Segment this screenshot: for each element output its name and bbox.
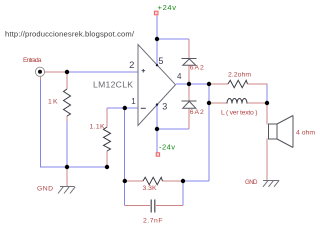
ground left (58, 187, 75, 194)
wire 1.1K bottom lead (106, 151, 108, 167)
node ground rail junction (65, 165, 69, 169)
-24v terminal (156, 153, 159, 156)
speaker LS1 (269, 116, 294, 148)
node output diode junction (187, 82, 191, 86)
wire cap row left (125, 205, 151, 207)
node pin5 connection (156, 64, 158, 66)
diode D2 6A2 (182, 101, 197, 108)
wire 2.2ohm left lead (209, 83, 228, 85)
svg-text:1: 1 (131, 97, 136, 106)
svg-text:LM12CLK: LM12CLK (93, 80, 133, 90)
ground right (263, 180, 279, 187)
node -24v junction (155, 127, 159, 131)
wire junction to op-amp +in (67, 71, 138, 73)
wire connector stub (40, 77, 42, 81)
wire 1K bottom to rail (66, 121, 68, 167)
svg-text:Entrada: Entrada (23, 57, 42, 64)
node pin1 junction (123, 106, 127, 110)
wire 3.3K right lead (163, 180, 184, 182)
wire +24v stub (156, 16, 158, 40)
svg-text:4 ohm: 4 ohm (296, 130, 315, 137)
wire 1.1K top lead (106, 108, 108, 127)
wire cap left column (124, 181, 126, 206)
svg-text:GND: GND (37, 186, 53, 193)
svg-text:4: 4 (177, 72, 182, 81)
wire speaker corner (266, 84, 268, 103)
svg-text:2.2ohm: 2.2ohm (228, 72, 251, 79)
wire -24v stub (156, 129, 158, 153)
node input/1K junction (65, 70, 69, 74)
wire diode D1 top lead (188, 39, 190, 58)
inductor L1 (227, 99, 247, 104)
svg-text:-24v: -24v (159, 143, 175, 152)
+24v terminal (154, 11, 158, 15)
wire diode D2 top lead (188, 84, 190, 101)
svg-text:1K: 1K (48, 99, 58, 106)
node +24v junction (155, 37, 159, 41)
svg-text:6A2: 6A2 (190, 65, 204, 72)
wire output row (176, 83, 209, 85)
op-amp plus input mark (142, 69, 146, 73)
svg-text:1.1K: 1.1K (90, 124, 105, 131)
resistor R3 2.2ohm (228, 80, 248, 87)
svg-text:6A2: 6A2 (190, 109, 204, 116)
capacitor C1 2.7nF (151, 200, 155, 213)
op-amp minus input mark (141, 107, 146, 109)
node inductor junction (207, 101, 211, 105)
wire diode D1 bottom lead (188, 65, 190, 84)
resistor R1 1K (64, 89, 71, 116)
svg-text:+24v: +24v (158, 3, 177, 12)
wire L left lead (209, 102, 227, 104)
wire speaker top lead (266, 103, 268, 125)
wire speaker bottom lead (266, 139, 268, 181)
svg-text:3: 3 (162, 101, 167, 111)
svg-text:L ( ver texto ): L ( ver texto ) (221, 110, 258, 117)
node pin3 connection (156, 103, 158, 105)
resistor R4 3.3K (143, 177, 163, 184)
wire pin1 row (107, 107, 138, 109)
input connector J1 (35, 67, 44, 76)
node feedback left junction (123, 179, 127, 183)
svg-text:2: 2 (129, 60, 134, 71)
svg-text:5: 5 (158, 56, 163, 66)
node output right junction (207, 82, 211, 86)
wire output column down (208, 84, 210, 181)
wire cap row right (156, 205, 183, 207)
node feedback right junction (181, 179, 185, 183)
svg-text:http://produccionesrek.blogspo: http://produccionesrek.blogspot.com/ (5, 30, 135, 39)
wire pin2 row (40, 16, 267, 206)
wire left ground lead (66, 167, 68, 187)
wire cap right column (182, 181, 184, 206)
wire feedback row right (183, 180, 209, 182)
wire 2.2ohm right lead (248, 83, 268, 85)
wire 1K top lead (66, 72, 68, 89)
wire 1K bottom lead (66, 116, 68, 121)
resistor R2 1.1K (104, 127, 111, 151)
node speaker junction (265, 101, 269, 105)
diode D1 6A2 (182, 59, 197, 66)
svg-text:2.7nF: 2.7nF (143, 218, 163, 225)
svg-text:GND: GND (245, 179, 258, 186)
wire L right lead (247, 102, 267, 104)
node 1.1K ground junction (105, 165, 109, 169)
wire input column down (40, 80, 42, 167)
op-amp U1 LM12CLK (138, 45, 176, 126)
wire pin5 (156, 39, 158, 65)
wire 3.3K left lead (125, 180, 144, 182)
wire ground rail (40, 166, 107, 168)
wire connector to junction (45, 71, 68, 73)
wire pin3 (156, 105, 158, 129)
wire pin3 row to diode column (157, 128, 189, 130)
svg-text:3.3K: 3.3K (143, 185, 157, 192)
wire feedback column (124, 108, 126, 181)
wire diode D2 bottom lead (188, 108, 190, 129)
wire top rail to diode column (157, 38, 190, 40)
